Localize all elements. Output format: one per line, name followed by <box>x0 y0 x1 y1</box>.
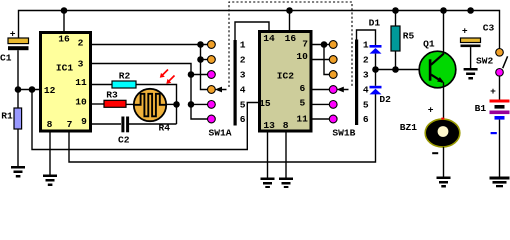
wire IC1 pin 12 <box>18 89 40 91</box>
wire positive supply rail <box>19 11 500 49</box>
wire IC1 pin 11 to R2 <box>91 84 113 86</box>
wire R2 to LDR node <box>136 85 177 125</box>
photo arrow 1 <box>162 70 168 76</box>
resistor R3 <box>104 90 126 108</box>
switch SW1A wiper arrow <box>215 87 227 93</box>
svg-text:1: 1 <box>363 40 369 51</box>
svg-text:8: 8 <box>283 120 289 131</box>
node junction SW1A row1 <box>197 41 204 48</box>
node junction SW1A row3 <box>188 71 195 78</box>
svg-text:6: 6 <box>363 114 369 125</box>
wire C3 to ground <box>470 47 472 68</box>
svg-text:7: 7 <box>302 39 308 50</box>
ground below BZ1 <box>437 177 451 188</box>
switch SW1B wiper arrow <box>337 87 349 93</box>
svg-text:C3: C3 <box>483 23 495 34</box>
diode D2 <box>370 86 392 105</box>
svg-text:10: 10 <box>75 97 87 108</box>
switch SW1B contact 5 <box>329 101 337 109</box>
node junction rail-IC1 pin16 <box>61 7 68 14</box>
battery B1 <box>475 86 510 134</box>
svg-text:5: 5 <box>363 99 369 110</box>
wire IC2 pin 13 to ground <box>267 133 269 178</box>
svg-text:3: 3 <box>78 59 84 70</box>
svg-text:1: 1 <box>240 40 246 51</box>
wire R1 to ground <box>17 129 19 166</box>
node junction D1/D2/base <box>372 66 379 73</box>
svg-text:BZ1: BZ1 <box>400 122 418 133</box>
photoresistor R4 (LDR) <box>134 89 170 134</box>
wire R5 top to rail <box>395 11 397 27</box>
wire IC1 pin 7 to D2 anode <box>69 94 376 162</box>
node junction rail-C3 <box>467 7 474 14</box>
wire R4 to node <box>166 103 177 105</box>
wire Q1 emitter to BZ1 <box>443 83 445 121</box>
ground below IC1 pin 8 <box>43 175 57 187</box>
svg-text:4: 4 <box>363 85 369 96</box>
node junction SW1A row5 <box>188 101 195 108</box>
svg-text:B1: B1 <box>475 103 487 114</box>
svg-text:11: 11 <box>296 113 308 124</box>
switch SW1B contact 1 <box>329 41 337 49</box>
wire IC1 pin 10 to R3 <box>91 103 105 105</box>
switch SW2 <box>476 49 508 77</box>
wire base node to Q1 <box>376 69 420 71</box>
node junction pin12-reset line <box>29 86 36 93</box>
svg-text:16: 16 <box>285 33 297 44</box>
svg-text:6: 6 <box>240 114 246 125</box>
switch SW1B contact 6 <box>329 115 337 123</box>
wire C2 to node <box>129 123 177 125</box>
svg-text:+: + <box>490 86 496 97</box>
svg-text:+: + <box>428 105 434 116</box>
svg-text:2: 2 <box>363 55 369 66</box>
svg-text:R5: R5 <box>403 30 415 41</box>
wire IC2 pin 16 to rail <box>289 11 291 32</box>
switch SW1B contacts wiring <box>313 45 330 120</box>
wire C1 to R1 <box>17 50 19 108</box>
wire IC1 pin 2 to SW1A contact 1 <box>91 44 209 46</box>
switch SW1B pole bar <box>355 40 358 126</box>
wire D1 to base node <box>375 54 377 70</box>
switch SW1A contact 3 <box>208 71 216 79</box>
wire D2 top to node <box>375 70 377 86</box>
switch SW1B contact 2 <box>329 56 337 64</box>
wire IC1 pin 3 to SW1A contact 3 feed <box>91 64 192 75</box>
node junction rail-IC2 pin16 <box>286 7 293 14</box>
wire SW1A pole to IC2 pin 14 <box>235 22 269 40</box>
IC IC1 (4060 oscillator/divider) <box>41 33 91 132</box>
ground below C3 <box>464 68 478 80</box>
ground below IC2 pin 8 <box>279 178 293 189</box>
svg-text:10: 10 <box>296 51 308 62</box>
svg-text:SW1B: SW1B <box>332 127 355 138</box>
wire IC1 pin 16 to rail <box>63 11 65 33</box>
svg-text:2: 2 <box>78 38 84 49</box>
wire reset line to IC2 pin 15 <box>32 90 259 150</box>
switch SW1A position numbers <box>240 40 246 126</box>
svg-text:+: + <box>462 26 468 37</box>
svg-text:9: 9 <box>81 116 87 127</box>
wire SW1B pole to D1 cathode <box>357 30 376 45</box>
svg-text:16: 16 <box>58 33 70 44</box>
svg-text:7: 7 <box>67 119 73 130</box>
ground below IC2 pin 13 <box>261 178 275 189</box>
svg-text:C1: C1 <box>0 53 12 64</box>
resistor R1 <box>1 108 21 129</box>
photo arrow 2 <box>169 76 175 82</box>
node junction SW1A row2 <box>197 56 204 63</box>
svg-text:5: 5 <box>240 99 246 110</box>
svg-text:3: 3 <box>363 70 369 81</box>
capacitor C2 <box>118 117 130 146</box>
svg-text:R1: R1 <box>1 111 13 122</box>
node junction SW1B row1 <box>321 41 328 48</box>
svg-text:IC2: IC2 <box>277 71 295 82</box>
svg-text:Q1: Q1 <box>423 39 435 50</box>
IC IC2 (4017 decade counter) <box>259 32 311 132</box>
node junction R5/base <box>392 66 399 73</box>
ground below R1 <box>11 166 25 178</box>
ground below B1 <box>490 177 510 188</box>
transistor Q1 <box>419 39 456 88</box>
wire IC2 pin 8 to ground <box>285 133 287 178</box>
svg-text:13: 13 <box>263 120 275 131</box>
svg-text:C2: C2 <box>118 134 130 145</box>
wire R3 to LDR <box>126 103 134 105</box>
switch SW1B position numbers <box>363 40 369 126</box>
switch SW1A contact 2 <box>208 56 216 64</box>
svg-text:3: 3 <box>240 70 246 81</box>
buzzer BZ1 <box>400 105 460 155</box>
svg-text:14: 14 <box>263 33 275 44</box>
switch SW1A contact 4 <box>208 86 216 94</box>
svg-text:IC1: IC1 <box>56 63 74 74</box>
wire BZ1 to ground <box>443 147 445 177</box>
capacitor C3 <box>461 23 495 47</box>
node junction rail-R5 <box>392 7 399 14</box>
node junction rail-Q1 collector <box>440 7 447 14</box>
svg-text:+: + <box>10 28 16 39</box>
capacitor C1 <box>0 28 28 63</box>
svg-text:SW1A: SW1A <box>208 127 231 138</box>
resistor R2 <box>112 71 136 89</box>
switch SW1B contact 4 <box>329 86 337 94</box>
wire R5 bottom to base node <box>395 51 397 70</box>
wire IC1 pin 9 to C2 <box>91 123 122 125</box>
wire SW2 to B1 <box>499 76 501 99</box>
node junction R2/R4/C2 <box>173 101 180 108</box>
switch SW1A contact 1 <box>208 41 216 49</box>
svg-text:8: 8 <box>47 119 53 130</box>
diode D1 <box>369 18 382 54</box>
switch SW1A contacts wiring <box>191 45 208 120</box>
resistor R5 <box>391 26 414 51</box>
ganged switch dashed link <box>229 2 352 87</box>
switch SW1B contact 3 <box>329 71 337 79</box>
svg-text:R2: R2 <box>119 71 131 82</box>
switch SW1A contact 5 <box>208 101 216 109</box>
switch SW1A contact 6 <box>208 115 216 123</box>
svg-text:4: 4 <box>240 85 246 96</box>
svg-text:D1: D1 <box>369 18 381 29</box>
svg-text:5: 5 <box>300 98 306 109</box>
svg-text:12: 12 <box>44 85 56 96</box>
wire B1 to ground <box>499 120 501 177</box>
switch SW1A pole bar <box>234 40 237 126</box>
wire IC1 pin 8 to ground <box>49 132 51 175</box>
wire Q1 collector to rail <box>443 11 445 55</box>
svg-text:D2: D2 <box>379 94 391 105</box>
svg-text:15: 15 <box>259 98 271 109</box>
svg-text:R3: R3 <box>106 90 118 101</box>
svg-text:6: 6 <box>300 83 306 94</box>
node junction C1/R1/pin12 <box>15 86 22 93</box>
svg-text:2: 2 <box>240 55 246 66</box>
svg-text:SW2: SW2 <box>476 56 494 67</box>
svg-text:11: 11 <box>75 77 87 88</box>
